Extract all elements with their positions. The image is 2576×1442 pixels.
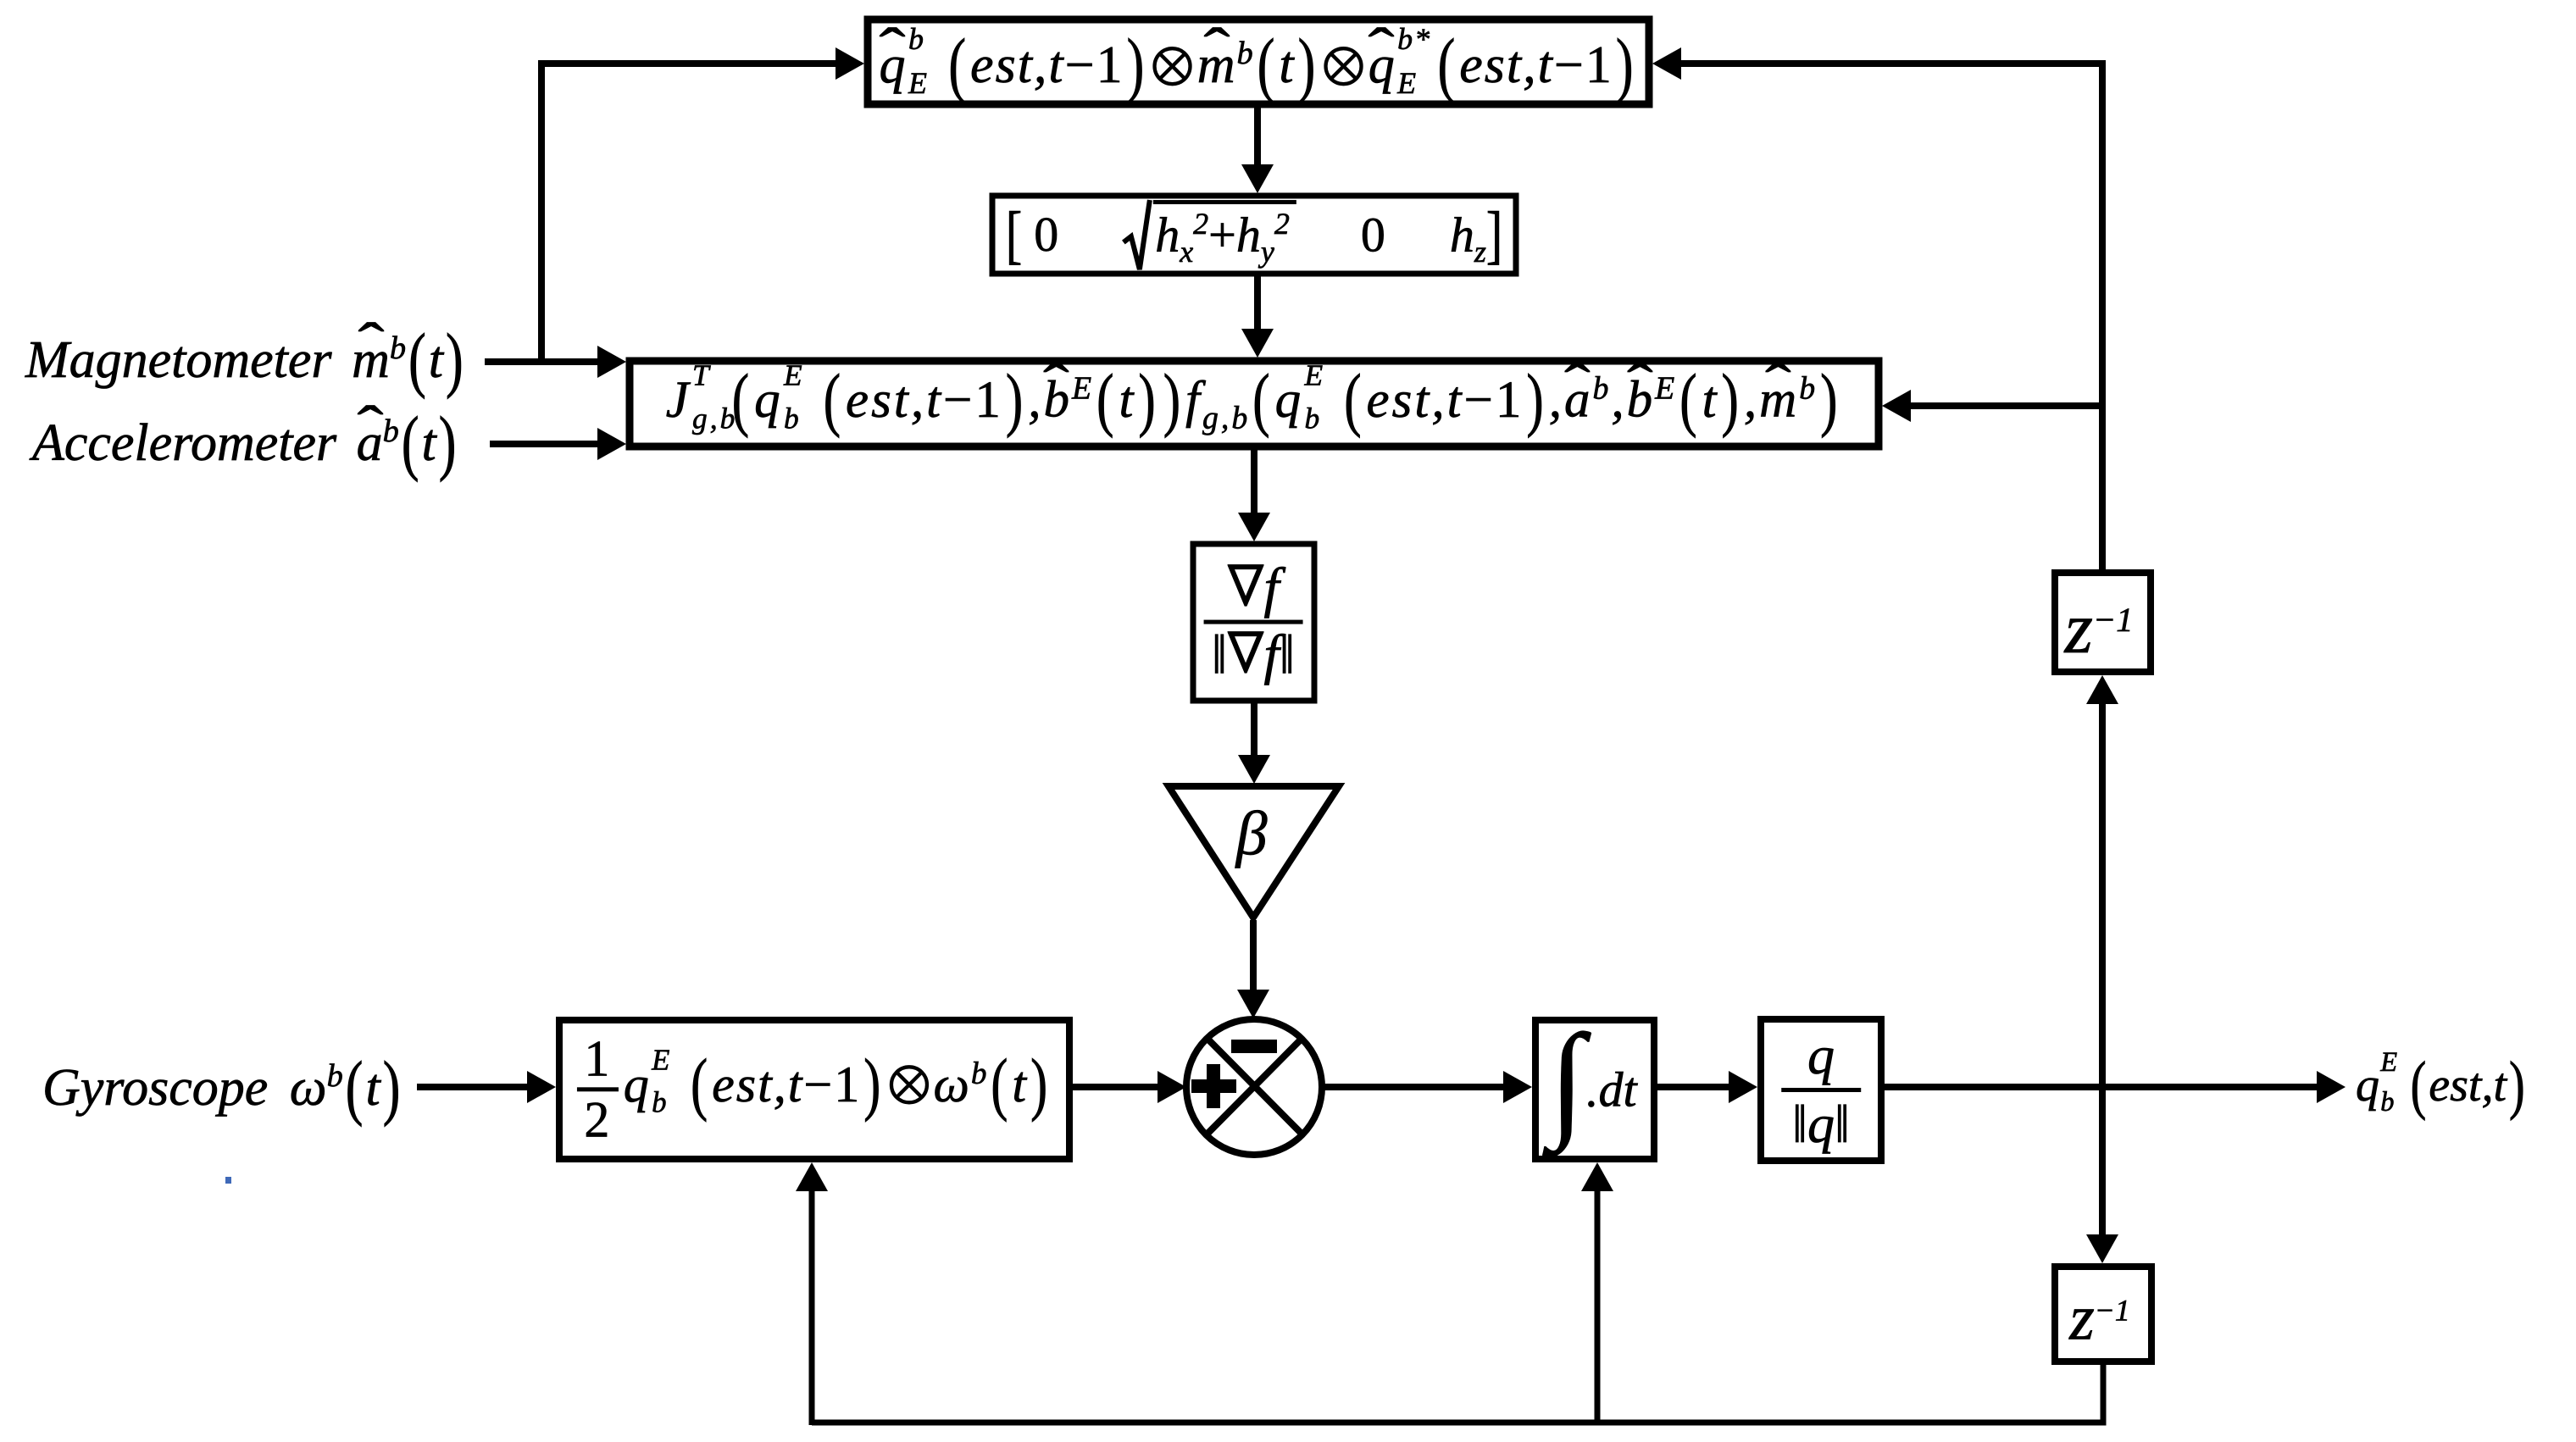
label: gradient term formula xyxy=(666,370,1843,437)
label: quaternion derivative formula xyxy=(577,1030,1052,1148)
wire: B4 to gain triangle xyxy=(1251,703,1257,755)
box B9 unit delay bottom xyxy=(2055,1267,2151,1362)
box B4 normalized gradient xyxy=(1193,544,1314,701)
minus sign xyxy=(1231,1040,1277,1053)
box B5 quaternion derivative xyxy=(559,1020,1069,1159)
label: h vector formula xyxy=(1006,200,1502,269)
wire: B3 to B4 xyxy=(1251,450,1257,513)
wire: feedback vertical down from output line xyxy=(2099,1087,2106,1234)
gain triangle beta xyxy=(1169,786,1339,918)
wire: B9 down and bottom feedback rail xyxy=(812,1365,2103,1423)
wire: feedback vertical up from output line xyxy=(2099,704,2106,1087)
label: integrator xyxy=(1549,1062,1636,1118)
wire: normalizer to output xyxy=(1885,1084,2317,1090)
label: beta gain xyxy=(1236,799,1268,871)
summing junction circle xyxy=(1186,1019,1322,1155)
box B1 top quaternion rotation xyxy=(868,19,1649,104)
blue speck xyxy=(225,1177,231,1184)
label: normalized gradient fraction xyxy=(1204,557,1303,687)
box B7 quaternion normalizer xyxy=(1761,1019,1881,1161)
wire: riser into B6 bottom xyxy=(1595,1191,1601,1423)
box B3 gradient term xyxy=(630,361,1879,446)
wire: riser into B5 bottom xyxy=(809,1191,815,1425)
wire: gyroscope input line xyxy=(417,1084,527,1090)
label: accelerometer input xyxy=(32,413,458,474)
label: quaternion normalizer fraction xyxy=(1781,1023,1861,1156)
wire: B2 to B3 xyxy=(1254,276,1261,329)
label: unit delay bottom xyxy=(2069,1282,2130,1356)
label: magnetometer input xyxy=(25,330,466,391)
label: unit delay top xyxy=(2065,585,2134,670)
label: top box formula xyxy=(880,35,1638,96)
label: gyroscope input xyxy=(42,1057,402,1118)
plus sign xyxy=(1191,1064,1236,1108)
wire: magnetometer branch vertical to top box xyxy=(538,64,545,365)
wire: feedback branch into B3 right side xyxy=(1911,402,2102,409)
box B8 unit delay top xyxy=(2055,573,2151,672)
wire: magnetometer input line xyxy=(485,358,597,365)
wire: B8 up to top right corner and left to B1 xyxy=(1681,64,2102,569)
box B2 h vector xyxy=(992,196,1516,274)
wire: B1 to B2 xyxy=(1254,108,1261,164)
wire: B5 to summing junction xyxy=(1073,1084,1158,1090)
wire: summing junction to integrator xyxy=(1322,1084,1503,1090)
wire: triangle to summing junction xyxy=(1250,920,1257,990)
label: output quaternion xyxy=(2356,1058,2528,1112)
wire: top-left horizontal into top box xyxy=(538,60,836,67)
box B6 integrator xyxy=(1535,1020,1654,1159)
wire: integrator to normalizer xyxy=(1657,1084,1729,1090)
wire: accelerometer input line xyxy=(490,441,597,447)
